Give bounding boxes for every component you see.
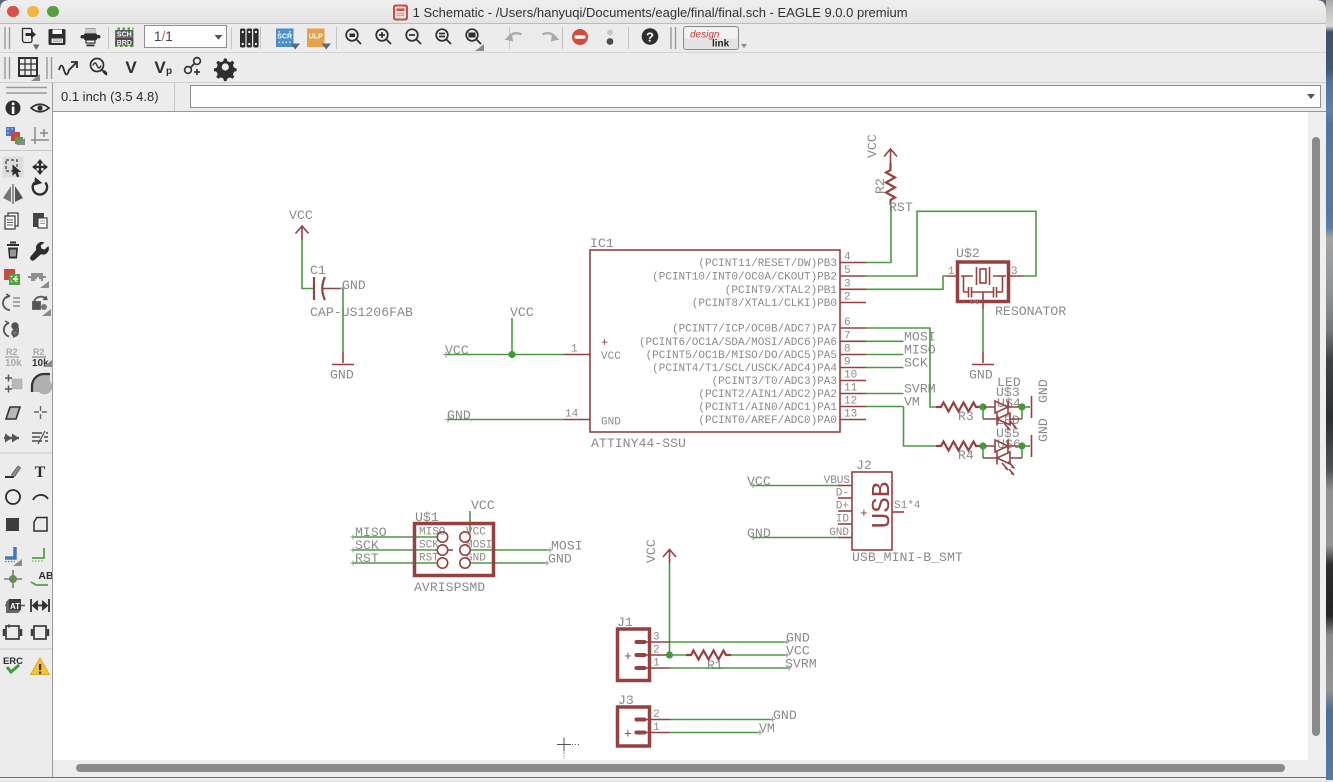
svg-text:(PCINT1/AIN0/ADC1)PA1: (PCINT1/AIN0/ADC1)PA1 [698,402,837,414]
resistor R2 [873,163,895,205]
svg-text:1: 1 [653,722,660,734]
svg-text:GND: GND [447,408,471,423]
junction LED pair 2 right [1018,442,1025,449]
svg-text:1: 1 [571,344,578,356]
svg-text:(PCINT9/XTAL2)PB1: (PCINT9/XTAL2)PB1 [725,285,838,297]
svg-text:IC1: IC1 [590,236,614,251]
svg-text:GND: GND [829,527,849,539]
svg-text:+: + [624,649,632,664]
svg-text:3: 3 [844,278,851,290]
wire to ground bar 2 [1022,445,1029,447]
IC1 left pin stubs [564,355,590,420]
resistor R3 [936,403,981,425]
svg-text:GND: GND [969,368,993,383]
svg-text:R2: R2 [873,178,888,194]
net GND wire out of U$1 [471,552,572,567]
net GND wire from J3 pin 2 [670,708,797,723]
svg-text:USB_MINI-B_SMT: USB_MINI-B_SMT [852,550,963,565]
svg-text:ERC: ERC [3,656,23,667]
net GND wire from J1 pin 3 [670,631,810,646]
svg-text:ATTINY44-SSU: ATTINY44-SSU [591,436,686,451]
svg-text:ULP: ULP [309,34,323,41]
svg-text:CAP-US1206FAB: CAP-US1206FAB [310,305,413,320]
LED U$5 / U$6 anti-parallel pair [983,440,1022,476]
wire C1 to ground [342,289,344,352]
junction on VCC net [508,351,515,358]
LED labels group upper [996,375,1021,452]
svg-text:8: 8 [844,344,851,356]
svg-text:(PCINT2/AIN1/ADC2)PA2: (PCINT2/AIN1/ADC2)PA2 [698,389,837,401]
svg-text:C1: C1 [310,263,326,278]
IC1 ATTINY44-SSU [590,236,840,451]
svg-text:RST: RST [889,200,913,215]
svg-text:VCC: VCC [445,343,469,358]
svg-text:AB: AB [38,570,52,582]
svg-text:VCC: VCC [865,134,880,158]
svg-text:SCH: SCH [117,31,132,38]
svg-text:VCC: VCC [644,539,659,563]
svg-text:4: 4 [844,252,851,264]
svg-text:VM: VM [904,395,920,410]
IC1 right pin stubs [840,263,866,420]
svg-text:(PCINT11/RESET/DW)PB3: (PCINT11/RESET/DW)PB3 [698,258,837,270]
svg-text:1: 1 [653,658,660,670]
svg-text:RESONATOR: RESONATOR [995,304,1066,319]
svg-text:(PCINT4/T1/SCL/USCK/ADC4)PA4: (PCINT4/T1/SCL/USCK/ADC4)PA4 [652,363,837,375]
svg-text:5: 5 [844,265,851,277]
svg-text:SCK: SCK [419,540,439,552]
capacitor C1 [310,263,413,320]
svg-text:ID: ID [836,514,850,526]
svg-text:10k: 10k [32,358,49,369]
connector J1 [617,615,670,681]
junction at R4 output [979,442,986,449]
junction LED pair 1 right [1018,403,1025,410]
net SCK label on IC pin 9 [866,356,928,371]
svg-text:+: + [860,506,868,521]
svg-text:1/1: 1/1 [154,29,173,44]
svg-text:VCC: VCC [601,351,621,363]
svg-text:VCC: VCC [471,498,495,513]
svg-text:(PCINT5/OC1B/MISO/DO/ADC5)PA5: (PCINT5/OC1B/MISO/DO/ADC5)PA5 [646,350,837,362]
wire GND net to IC pin 14 [445,408,564,423]
svg-text:VCC: VCC [747,474,771,489]
connector U$1 AVRISPSMD [414,510,494,595]
net MOSI wire out of U$1 [471,539,583,554]
power VCC label above U$1 [470,498,495,533]
svg-text:2: 2 [844,292,851,304]
net VM label on IC pin 12 [866,395,920,410]
svg-text:7: 7 [844,330,851,342]
resistor R4 [936,442,981,464]
svg-text:2: 2 [653,709,660,721]
svg-text:S1*4: S1*4 [894,500,921,512]
junction at R3 output [979,403,986,410]
svg-text:R4: R4 [958,448,974,463]
svg-text:R1: R1 [707,658,723,673]
wire VCC net to IC pin 1 [443,343,564,358]
wire to ground bar 1 [1022,406,1029,408]
svg-text:GND: GND [747,526,771,541]
svg-text:V: V [125,58,137,77]
node GND label at C1 [340,278,366,293]
svg-text:+: + [601,336,608,350]
svg-text:VM: VM [759,721,775,736]
svg-text:SCK: SCK [904,356,928,371]
svg-text:GND: GND [1036,379,1051,403]
svg-text:SVRM: SVRM [785,657,817,672]
wire IC pin 6 to R3 [866,328,936,407]
svg-text:(PCINT3/T0/ADC3)PA3: (PCINT3/T0/ADC3)PA3 [712,376,837,388]
wire VCC down to J1 pin 2 [669,563,671,655]
svg-text:3: 3 [1011,266,1018,278]
svg-text:11: 11 [844,383,858,395]
svg-text:U$2: U$2 [956,246,980,261]
net SVRM label on IC pin 11 [866,382,936,397]
svg-text:?: ? [646,30,654,45]
svg-text:2: 2 [970,298,982,305]
ground symbol below C1 [330,352,354,383]
svg-text:T: T [35,464,46,481]
svg-text:3: 3 [653,632,660,644]
power VCC symbol at IC pin1 net [510,305,534,355]
wire IC pin 3 to resonator pin 1 [866,276,946,289]
net MOSI label on IC pin 7 [866,329,936,344]
svg-text:VCC: VCC [510,305,534,320]
net VM wire from J3 pin 1 [670,721,775,736]
power VCC symbol above J1 [644,539,676,563]
wire resonator pin 2 to ground [982,302,984,352]
connector J2 USB_MINI-B_SMT [824,458,963,565]
svg-text:10k: 10k [5,358,22,369]
svg-text:2: 2 [653,645,660,657]
svg-text:link: link [712,39,730,50]
net VCC wire to label [731,644,810,659]
svg-text:6: 6 [844,317,851,329]
svg-text:AT: AT [10,602,20,611]
svg-text:R3: R3 [958,409,974,424]
svg-text:GND: GND [601,417,621,429]
ground symbol below resonator [969,352,994,383]
svg-text:RST: RST [419,553,439,565]
svg-text:(PCINT10/INT0/OC0A/CKOUT)PB2: (PCINT10/INT0/OC0A/CKOUT)PB2 [652,272,837,284]
svg-text:10: 10 [844,370,857,382]
svg-text:(PCINT7/ICP/OC0B/ADC7)PA7: (PCINT7/ICP/OC0B/ADC7)PA7 [672,324,837,336]
svg-text:SCR: SCR [277,34,292,41]
svg-text:13: 13 [844,409,857,421]
LED U$3 / U$4 anti-parallel pair [983,401,1022,431]
IC1 pin function labels [639,258,837,427]
svg-text:GND: GND [342,278,366,293]
resonator U$2 [946,246,1066,319]
svg-text:R2: R2 [33,347,45,357]
svg-text:(PCINT0/AREF/ADC0)PA0: (PCINT0/AREF/ADC0)PA0 [698,415,837,427]
svg-text:V: V [154,58,166,77]
wire VCC to C1 left plate [302,240,313,289]
svg-text:BRD: BRD [117,40,132,47]
svg-text:p: p [166,66,172,77]
svg-text:USB: USB [867,482,897,529]
svg-text:GND: GND [773,708,797,723]
svg-text:12: 12 [844,396,857,408]
svg-text:VCC: VCC [289,208,313,223]
ground symbol right of LED pair 2 (rotated) [1029,418,1052,457]
power VCC symbol above C1 [289,208,313,240]
svg-text:GND: GND [548,552,572,567]
svg-text:(PCINT8/XTAL1/CLKI)PB0: (PCINT8/XTAL1/CLKI)PB0 [692,298,837,310]
wire IC pin 5 to resonator pin 3 [866,211,1036,276]
power VCC symbol above R2 [865,134,897,163]
svg-text:VCC: VCC [466,527,486,539]
net SVRM wire from J1 pin 1 [670,657,817,672]
svg-text:(PCINT6/OC1A/SDA/MOSI/ADC6)PA6: (PCINT6/OC1A/SDA/MOSI/ADC6)PA6 [639,337,837,349]
mouse crosshair cursor [557,738,580,760]
connector J3 [618,693,671,746]
svg-text:D-: D- [836,488,849,500]
svg-text:D+: D+ [836,501,849,513]
svg-text:J2: J2 [856,458,872,473]
net RST wire into U$1 [351,551,438,566]
net MISO wire into U$1 [351,525,438,540]
svg-text:AVRISPSMD: AVRISPSMD [414,580,485,595]
svg-text:GND: GND [330,368,354,383]
IC1 right pin numbers [844,252,858,421]
junction at J1 pin 2 [666,651,673,658]
svg-text:R2: R2 [6,347,18,357]
resistor R1 on J1 pin 2 net [670,651,732,674]
svg-text:+: + [624,727,632,742]
wire R4 feed: IC pin 12 down to R4 [904,407,937,447]
net RST: wire IC pin 4 to R2 [866,200,913,263]
net MISO label on IC pin 8 [866,343,936,358]
IC1 left pin numbers [565,344,579,421]
svg-text:9: 9 [844,357,851,369]
net GND wire into USB GND [747,526,838,541]
svg-text:14: 14 [565,409,579,421]
ground symbol right of LED pair 1 (rotated) [1029,379,1052,418]
svg-text:GND: GND [1036,418,1051,442]
svg-text:VBUS: VBUS [824,475,851,487]
net VCC wire into USB VBUS [747,474,838,489]
svg-text:1: 1 [948,266,955,278]
net SCK wire into U$1 [351,538,438,553]
